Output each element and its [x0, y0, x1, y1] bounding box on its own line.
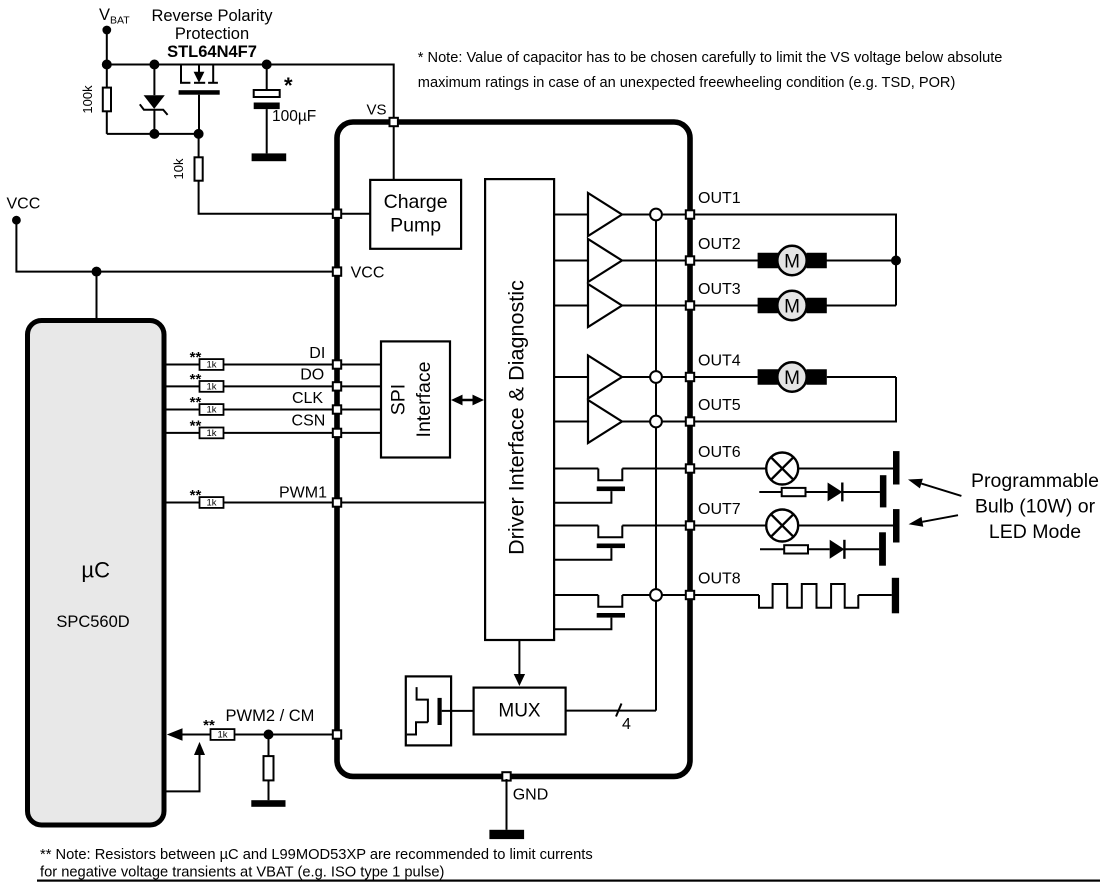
wire CSN row	[164, 432, 337, 434]
ground PWM2	[251, 800, 285, 807]
wire drain OUT6	[622, 468, 688, 470]
resistor 1k DO	[200, 381, 224, 392]
pin left y213.7	[333, 210, 341, 218]
arrow to bulb OUT7	[922, 515, 958, 522]
wire buffer to pin OUT4	[622, 376, 688, 378]
wire DI row	[164, 364, 337, 366]
svg-text:OUT8: OUT8	[698, 571, 741, 588]
svg-text:* Note: Value of capacitor has: * Note: Value of capacitor has to be cho…	[418, 50, 1003, 66]
svg-text:Pump: Pump	[390, 215, 441, 237]
wire buffer to pin OUT5	[622, 421, 688, 423]
wire source OUT7	[554, 525, 598, 527]
node sense OUT5	[650, 416, 662, 428]
pin OUT6	[686, 464, 694, 472]
transistor Q8 gate bar	[597, 613, 625, 618]
junction PWM2 divider	[264, 730, 274, 740]
wire OUT1 link	[694, 215, 896, 306]
VCC terminal dot	[12, 216, 21, 225]
wire OUT7 row	[694, 525, 893, 527]
plate LED OUT6	[880, 475, 887, 507]
svg-text:**: **	[190, 487, 202, 504]
svg-text:1k: 1k	[206, 428, 216, 439]
pin left y432.9	[333, 429, 341, 437]
transistor Q6 channel	[598, 469, 622, 481]
op-amp buffer A2	[588, 239, 622, 282]
plate OUT8	[892, 578, 899, 614]
wire driver to buffer OUT1	[554, 214, 588, 216]
svg-text:MUX: MUX	[498, 701, 541, 722]
junction capacitor top	[262, 60, 272, 70]
svg-text:1k: 1k	[217, 730, 227, 741]
svg-text:Interface: Interface	[413, 362, 435, 438]
svg-text:M: M	[784, 296, 800, 317]
svg-text:STL64N4F7: STL64N4F7	[167, 43, 257, 61]
bulb OUT7	[766, 510, 798, 542]
resistor PWM2 pulldown	[264, 756, 274, 780]
transistor Q7 gate bar	[597, 544, 625, 549]
arrowhead feedback up	[194, 742, 205, 755]
svg-text:Protection: Protection	[175, 25, 249, 43]
svg-text:M: M	[784, 368, 800, 389]
svg-text:PWM1: PWM1	[279, 485, 327, 502]
wire PWM2 divider	[268, 735, 270, 757]
diode LED OUT7	[830, 540, 845, 559]
svg-text:**: **	[203, 717, 215, 734]
wire driver to buffer OUT2	[554, 260, 588, 262]
pin OUT4	[686, 373, 694, 381]
svg-text:µC: µC	[81, 558, 110, 583]
SPI interface block	[381, 341, 450, 457]
op-amp buffer A1	[588, 193, 622, 236]
op-amp buffer A4	[588, 356, 622, 399]
wire source OUT8	[554, 594, 598, 596]
pin OUT3	[686, 301, 694, 309]
wire pulldown to ground	[268, 780, 270, 800]
wire VBAT down	[106, 30, 108, 65]
motor M3	[758, 369, 779, 385]
resistor 1k CSN	[200, 428, 224, 439]
node sense OUT8	[650, 589, 662, 601]
arrowhead into uC	[167, 728, 183, 740]
wire sense bus vertical	[655, 215, 657, 711]
zener diode	[153, 65, 155, 96]
diode LED OUT6	[828, 483, 843, 502]
ground main GND	[489, 830, 524, 839]
svg-text:Reverse Polarity: Reverse Polarity	[151, 7, 273, 25]
squarewave load OUT8	[759, 584, 858, 608]
wire CM to MUX	[442, 710, 474, 712]
wire motor M2 row	[694, 305, 896, 307]
VBAT terminal dot	[102, 26, 111, 35]
wire source OUT6	[554, 468, 598, 470]
MUX block	[474, 688, 566, 735]
svg-text:PWM2 / CM: PWM2 / CM	[226, 707, 315, 725]
pin OUT7	[686, 521, 694, 529]
resistor 1k PWM1	[200, 497, 224, 508]
pin left y386.4	[333, 382, 341, 390]
pin VS	[390, 118, 398, 126]
bottom rule	[37, 880, 1100, 882]
svg-text:DO: DO	[300, 367, 324, 384]
junction VBAT bus	[102, 60, 112, 70]
plate LED OUT7	[879, 532, 886, 565]
svg-text:SPI: SPI	[388, 384, 410, 415]
wire gate return OUT7	[554, 548, 611, 560]
junction OUT2 link	[891, 256, 901, 266]
junction VCC to uC	[92, 267, 102, 277]
transistor CM mosfet	[417, 687, 428, 722]
wire OUT8 row	[694, 594, 759, 596]
current monitor block	[406, 676, 451, 745]
svg-text:Bulb (10W) or: Bulb (10W) or	[975, 496, 1096, 518]
arrow to bulb OUT6	[921, 484, 961, 496]
pin OUT2	[686, 256, 694, 264]
capacitor C1 100uF	[266, 65, 268, 91]
wire gate return OUT8	[554, 618, 611, 630]
svg-text:Charge: Charge	[384, 191, 448, 213]
wire driver to MUX	[518, 640, 520, 675]
wire VS internal	[393, 124, 395, 180]
svg-text:**: **	[190, 371, 202, 388]
wire motor M1 row	[694, 260, 896, 262]
wire DO row	[164, 385, 337, 387]
wire driver to buffer OUT4	[554, 376, 588, 378]
resistor 10k	[195, 157, 203, 180]
op-amp U2 microcontroller box	[28, 321, 165, 826]
wire motor M3 row	[694, 376, 758, 378]
pin left y502.5	[333, 498, 341, 506]
svg-text:1k: 1k	[206, 405, 216, 416]
svg-text:M: M	[784, 251, 800, 272]
arrowhead driver to MUX	[514, 674, 525, 686]
svg-text:OUT6: OUT6	[698, 444, 741, 461]
op-amp U1 L99MOD53XP outline	[337, 122, 690, 776]
svg-text:OUT7: OUT7	[698, 501, 741, 518]
motor M1	[758, 253, 779, 269]
op-amp buffer A5	[588, 400, 622, 443]
node sense OUT4	[650, 371, 662, 383]
wire CLK to SPI block	[339, 409, 381, 411]
transistor Q8 channel	[598, 595, 622, 607]
wire DO to SPI block	[339, 385, 381, 387]
wire driver to buffer OUT5	[554, 421, 588, 423]
wire LED branch OUT7	[760, 548, 784, 550]
resistor 1k PWM2	[211, 729, 235, 740]
svg-text:*: *	[284, 73, 293, 98]
wire driver to buffer OUT3	[554, 305, 588, 307]
resistor 1k DI	[200, 359, 224, 370]
junction zener bottom	[149, 129, 159, 139]
wire PWM1 to driver	[339, 502, 485, 504]
wire buffer to pin OUT1	[622, 214, 688, 216]
svg-text:4: 4	[622, 716, 631, 733]
wire VCC	[16, 220, 337, 271]
driver interface block	[485, 179, 554, 640]
bidirectional arrow SPI-Driver	[459, 399, 476, 401]
pin left y734.5	[333, 730, 341, 738]
svg-text:VCC: VCC	[7, 196, 41, 213]
svg-text:VCC: VCC	[351, 265, 385, 282]
svg-text:** Note: Resistors between µC: ** Note: Resistors between µC and L99MOD…	[40, 847, 593, 863]
svg-text:for negative voltage transient: for negative voltage transients at VBAT …	[40, 865, 444, 881]
wire motor M3 to bracket	[827, 376, 896, 378]
wire CSN to SPI block	[339, 432, 381, 434]
svg-text:Programmable: Programmable	[971, 470, 1099, 492]
svg-text:LED Mode: LED Mode	[989, 521, 1081, 543]
pin OUT1	[686, 210, 694, 218]
svg-text:CLK: CLK	[292, 390, 323, 407]
pin OUT8	[686, 591, 694, 599]
bus slash	[616, 704, 622, 717]
wire buffer to pin OUT3	[622, 305, 688, 307]
svg-text:100µF: 100µF	[272, 108, 316, 125]
motor M2	[758, 298, 779, 314]
node sense OUT1	[650, 209, 662, 221]
wire PWM2 row	[171, 734, 337, 736]
wire buffer to pin OUT2	[622, 260, 688, 262]
bulb OUT6	[766, 453, 798, 485]
pin OUT5	[686, 417, 694, 425]
wire charge pump left	[339, 213, 370, 215]
svg-text:OUT5: OUT5	[698, 397, 741, 414]
svg-text:Driver Interface & Diagnostic: Driver Interface & Diagnostic	[504, 280, 529, 555]
svg-text:**: **	[190, 349, 202, 366]
transistor Q1 STL64N4F7 PMOS	[180, 65, 182, 83]
pin left y271.6	[333, 267, 341, 275]
wire MUX to sense bus	[566, 710, 656, 712]
svg-text:VS: VS	[366, 102, 386, 119]
pin left y409.5	[333, 405, 341, 413]
wire GND	[506, 779, 508, 830]
wire top bus to VS	[107, 65, 394, 123]
transistor Q7 channel	[598, 526, 622, 538]
plate bulb OUT7	[893, 509, 900, 542]
wire LED branch OUT6	[759, 491, 781, 493]
ground capacitor	[252, 153, 287, 161]
svg-text:OUT4: OUT4	[698, 353, 741, 370]
wire DI to SPI block	[339, 364, 381, 366]
wire VCC to uC	[96, 272, 98, 318]
wire CLK row	[164, 409, 337, 411]
svg-text:100k: 100k	[80, 85, 95, 114]
svg-text:1k: 1k	[206, 382, 216, 393]
svg-text:OUT1: OUT1	[698, 190, 741, 207]
wire drain OUT7	[622, 525, 688, 527]
svg-text:1k: 1k	[206, 498, 216, 509]
svg-text:GND: GND	[513, 787, 549, 804]
svg-text:DI: DI	[309, 345, 325, 362]
wire OUT6 row	[694, 468, 893, 470]
pin left y364.5	[333, 360, 341, 368]
svg-text:10k: 10k	[171, 158, 186, 179]
charge pump block	[370, 180, 461, 249]
resistor 1k CLK	[200, 404, 224, 415]
svg-text:OUT3: OUT3	[698, 281, 741, 298]
resistor 100k	[103, 88, 111, 112]
svg-text:maximum ratings in case of an: maximum ratings in case of an unexpected…	[418, 75, 956, 91]
wire 100k body	[106, 65, 108, 88]
svg-text:OUT2: OUT2	[698, 236, 741, 253]
svg-text:SPC560D: SPC560D	[56, 613, 129, 631]
svg-text:CSN: CSN	[292, 413, 326, 430]
svg-text:**: **	[190, 394, 202, 411]
op-amp buffer A3	[588, 284, 622, 327]
plate bulb OUT6	[893, 451, 900, 484]
pin GND	[502, 772, 510, 780]
resistor LED OUT7	[784, 545, 808, 553]
resistor LED OUT6	[782, 488, 806, 496]
wire OUT4-OUT5 bracket	[694, 377, 896, 422]
wire PWM1 row	[164, 502, 337, 504]
wire feedback to uC	[164, 754, 200, 791]
svg-text:**: **	[190, 418, 202, 435]
junction gate node	[194, 129, 204, 139]
svg-text:1k: 1k	[206, 360, 216, 371]
wire lower bus	[107, 133, 199, 135]
transistor Q6 gate bar	[597, 487, 625, 492]
wire 10k to charge-pump pin	[198, 134, 200, 157]
wire drain OUT8	[622, 594, 688, 596]
junction zener top	[149, 60, 159, 70]
wire gate return OUT6	[554, 491, 611, 503]
